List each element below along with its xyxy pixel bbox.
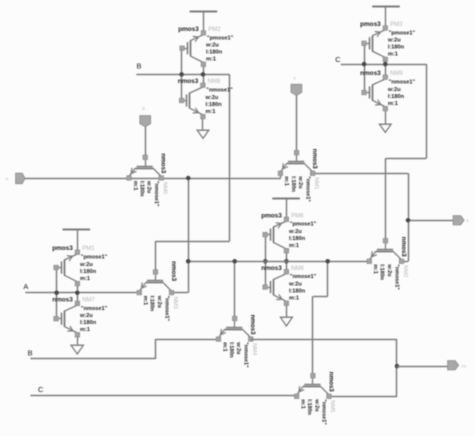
svg-text:l:180n: l:180n xyxy=(149,296,155,312)
svg-text:w:2u: w:2u xyxy=(235,341,241,354)
svg-text:NM0: NM0 xyxy=(162,182,168,194)
wire to NM5 right xyxy=(329,396,397,398)
svg-text:NM4: NM4 xyxy=(251,343,257,356)
svg-text:"pmose1": "pmose1" xyxy=(389,30,416,36)
svg-text:nmos3: nmos3 xyxy=(178,78,199,85)
svg-text:l:180n: l:180n xyxy=(289,288,306,294)
svg-text:"nmose1": "nmose1" xyxy=(163,296,169,322)
wire to NM2 right xyxy=(402,261,408,263)
pin out1 right xyxy=(453,216,464,225)
svg-text:m:1: m:1 xyxy=(132,181,138,191)
wire NM5 gate path down xyxy=(327,261,329,296)
svg-text:m:1: m:1 xyxy=(372,264,378,274)
svg-text:pmos3: pmos3 xyxy=(261,212,282,219)
svg-text:l:180n: l:180n xyxy=(80,320,97,326)
junction node column xyxy=(186,259,191,264)
wire main right of NM1 xyxy=(312,173,408,175)
wire PM3-NM9 drain column xyxy=(385,60,387,77)
svg-text:B: B xyxy=(28,348,33,357)
svg-text:"pmose1": "pmose1" xyxy=(207,35,234,41)
wire b pin to NM0 gate xyxy=(145,127,147,157)
svg-text:l:180n: l:180n xyxy=(206,50,223,56)
svg-text:l:180n: l:180n xyxy=(379,264,385,280)
transistor NM9 xyxy=(372,79,385,85)
junction A gate column xyxy=(54,291,59,296)
wire output tap 2 xyxy=(397,366,448,368)
junction output 1 xyxy=(406,218,411,223)
svg-text:l:180n: l:180n xyxy=(228,342,234,358)
svg-text:w:2u: w:2u xyxy=(313,398,319,411)
wire PM1-NM7 drain column xyxy=(77,284,79,303)
wire main jog NM1 xyxy=(280,173,282,178)
svg-text:w:2u: w:2u xyxy=(288,281,302,287)
svg-text:"nmose1": "nmose1" xyxy=(290,274,317,280)
svg-text:pmos3: pmos3 xyxy=(360,21,381,28)
svg-text:"nmose1": "nmose1" xyxy=(389,80,416,86)
svg-text:m:1: m:1 xyxy=(80,276,90,282)
wire PM6-NM6 drain column xyxy=(286,251,288,272)
junction main-A column xyxy=(186,176,191,181)
svg-text:"pmose1": "pmose1" xyxy=(290,222,317,228)
wire output tap 1 xyxy=(408,220,454,222)
transistor NM2 xyxy=(385,243,387,250)
svg-text:co: co xyxy=(461,363,466,368)
svg-text:nmos3: nmos3 xyxy=(311,149,318,170)
svg-text:C: C xyxy=(38,385,44,394)
svg-text:PM2: PM2 xyxy=(208,27,221,33)
svg-text:w:2u: w:2u xyxy=(386,263,392,276)
pin c top xyxy=(291,84,302,95)
wire PM2-NM8 drain column xyxy=(203,67,205,86)
junction B drain column xyxy=(201,72,206,77)
wire PM6-NM6 gate column xyxy=(265,237,267,287)
vdd rail for PM1 xyxy=(63,229,91,231)
svg-text:NM1: NM1 xyxy=(313,177,319,189)
svg-text:w:2u: w:2u xyxy=(387,87,401,93)
svg-text:m:1: m:1 xyxy=(206,57,216,63)
wire NM5 gate path left xyxy=(313,296,328,298)
transistor NM7 xyxy=(64,305,77,311)
svg-text:nmos3: nmos3 xyxy=(360,70,381,77)
wire A net horizontal mid xyxy=(25,292,139,294)
junction node gate column PM6 xyxy=(263,259,268,264)
junction A drain column xyxy=(75,291,80,296)
svg-text:m:1: m:1 xyxy=(289,295,299,301)
svg-text:l:180n: l:180n xyxy=(388,45,405,51)
svg-text:pmos3: pmos3 xyxy=(178,26,199,33)
svg-text:NM3: NM3 xyxy=(172,297,178,309)
svg-text:w:2u: w:2u xyxy=(79,262,93,268)
ground below NM8 xyxy=(202,119,204,130)
transistor NM4 xyxy=(234,321,236,328)
junction B gate column xyxy=(179,72,184,77)
svg-text:NM9: NM9 xyxy=(390,71,403,77)
svg-text:NM2: NM2 xyxy=(402,265,408,277)
transistor NM8 xyxy=(190,87,203,93)
svg-text:m:1: m:1 xyxy=(388,52,398,58)
svg-text:"nmose1": "nmose1" xyxy=(304,176,310,202)
transistor NM3 xyxy=(155,274,157,281)
svg-text:w:2u: w:2u xyxy=(205,43,219,49)
svg-text:"nmose1": "nmose1" xyxy=(243,342,249,368)
ground below NM7 xyxy=(77,337,79,346)
svg-text:pmos3: pmos3 xyxy=(52,245,73,252)
wire NM4 out xyxy=(251,339,397,341)
wire C-bar to NM2 gate xyxy=(385,158,387,240)
svg-text:PM1: PM1 xyxy=(82,246,95,252)
wire B-bar route down xyxy=(229,74,231,241)
wire main down to output xyxy=(408,173,410,261)
wire C net horizontal xyxy=(341,64,427,66)
pin A left xyxy=(16,173,25,184)
svg-text:w:2u: w:2u xyxy=(205,95,219,101)
svg-text:w:2u: w:2u xyxy=(387,38,401,44)
svg-text:C: C xyxy=(335,55,341,64)
svg-text:PM3: PM3 xyxy=(390,22,403,28)
wire B net horizontal xyxy=(136,74,229,76)
wire junction column down xyxy=(188,178,190,293)
transistor PM3 xyxy=(372,30,385,36)
svg-text:A: A xyxy=(23,282,28,291)
svg-text:"nmose1": "nmose1" xyxy=(153,181,159,207)
svg-text:m:1: m:1 xyxy=(206,109,216,115)
wire B riser xyxy=(155,339,157,359)
svg-text:m:1: m:1 xyxy=(221,342,227,352)
wire NM4 gate xyxy=(234,261,236,318)
svg-text:"nmose1": "nmose1" xyxy=(206,88,233,94)
vdd rail for PM2 xyxy=(190,11,218,13)
svg-text:NM7: NM7 xyxy=(82,297,95,303)
transistor PM6 xyxy=(273,221,286,227)
svg-text:"nmose1": "nmose1" xyxy=(81,306,108,312)
svg-text:l:180n: l:180n xyxy=(80,269,97,275)
vdd rail for PM3 xyxy=(372,6,400,8)
junction NM4 gate node xyxy=(232,259,237,264)
svg-text:l:180n: l:180n xyxy=(289,236,306,242)
svg-text:NM5: NM5 xyxy=(329,400,335,412)
svg-text:w:2u: w:2u xyxy=(288,229,302,235)
wire PM1-NM7 gate column xyxy=(56,269,58,317)
wire B bottom xyxy=(30,358,155,360)
svg-text:"nmose1": "nmose1" xyxy=(393,264,399,290)
wire to NM3 right xyxy=(172,292,188,294)
wire node row xyxy=(188,261,369,263)
wire NM4 out down xyxy=(396,339,398,396)
svg-text:nmos3: nmos3 xyxy=(160,153,167,174)
svg-text:w:2u: w:2u xyxy=(79,313,93,319)
pin b top xyxy=(140,116,151,127)
wire B to NM4 xyxy=(155,339,218,341)
svg-text:nmos3: nmos3 xyxy=(261,265,282,272)
svg-text:NM8: NM8 xyxy=(208,79,221,85)
transistor NM0 xyxy=(145,160,147,167)
wire main A row xyxy=(25,178,281,180)
ground below NM6 xyxy=(286,305,288,317)
wire B-bar route left xyxy=(156,241,230,243)
junction NM5 gate node xyxy=(325,259,330,264)
wire PM2-NM8 gate column xyxy=(181,50,183,100)
svg-text:l:180n: l:180n xyxy=(206,102,223,108)
transistor NM1 xyxy=(296,155,298,162)
wire B-bar to NM3 gate xyxy=(155,241,157,272)
svg-text:m:1: m:1 xyxy=(300,399,306,409)
svg-text:m:1: m:1 xyxy=(142,296,148,306)
svg-text:l:180n: l:180n xyxy=(290,176,296,192)
wire c pin to NM1 gate xyxy=(296,96,298,153)
pin out2 right xyxy=(448,361,459,370)
svg-text:NM6: NM6 xyxy=(291,266,304,272)
svg-text:l:180n: l:180n xyxy=(306,399,312,415)
transistor NM6 xyxy=(273,274,286,280)
svg-text:l:180n: l:180n xyxy=(138,181,144,197)
svg-text:m:1: m:1 xyxy=(388,101,398,107)
svg-text:"nmose1": "nmose1" xyxy=(321,399,327,425)
svg-text:nmos3: nmos3 xyxy=(327,372,334,393)
svg-text:l:180n: l:180n xyxy=(388,94,405,100)
wire C-bar route down xyxy=(426,64,428,158)
svg-text:w:2u: w:2u xyxy=(156,295,162,308)
svg-text:w:2u: w:2u xyxy=(297,175,303,188)
svg-text:m:1: m:1 xyxy=(80,327,90,333)
junction C drain column xyxy=(383,62,388,67)
wire C bottom xyxy=(30,395,296,397)
svg-text:"pmose1": "pmose1" xyxy=(81,255,108,261)
ground below NM9 xyxy=(385,111,387,124)
svg-text:nmos3: nmos3 xyxy=(52,296,73,303)
svg-text:nmos3: nmos3 xyxy=(400,237,407,258)
junction node drain column NM6 xyxy=(284,259,289,264)
junction output 2 xyxy=(395,364,400,369)
svg-text:B: B xyxy=(137,62,142,71)
junction C gate column xyxy=(362,62,367,67)
svg-text:m:1: m:1 xyxy=(289,243,299,249)
svg-text:PM6: PM6 xyxy=(291,213,304,219)
svg-text:w:2u: w:2u xyxy=(146,180,152,193)
transistor PM2 xyxy=(190,35,203,41)
svg-text:b: b xyxy=(142,106,145,111)
wire NM5 gate path down2 xyxy=(312,296,314,375)
transistor PM1 xyxy=(64,254,77,260)
svg-text:nmos3: nmos3 xyxy=(170,261,177,282)
svg-text:nmos3: nmos3 xyxy=(249,315,256,336)
transistor NM5 xyxy=(312,378,314,385)
vdd rail for PM6 xyxy=(272,198,300,200)
svg-text:m:1: m:1 xyxy=(283,176,289,186)
wire PM3-NM9 gate column xyxy=(364,45,366,93)
wire C-bar route left xyxy=(386,158,427,160)
